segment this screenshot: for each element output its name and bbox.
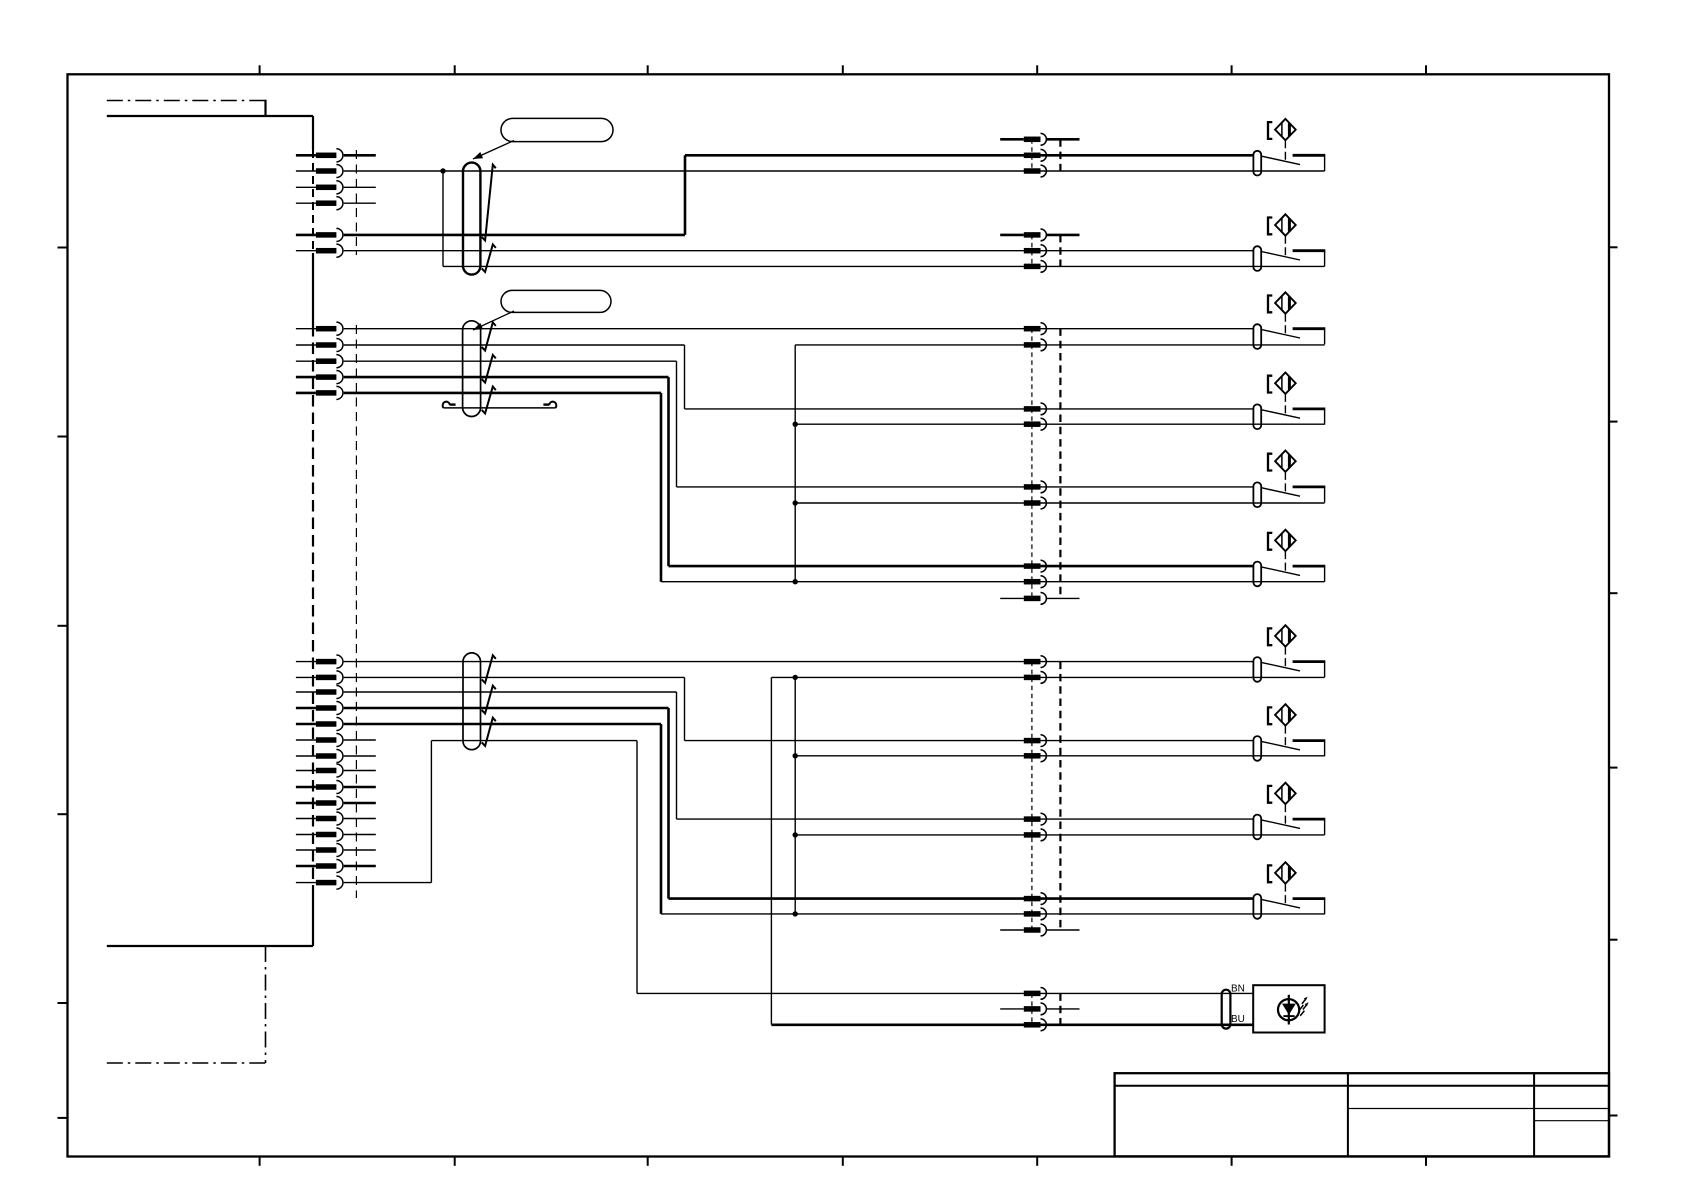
svg-text:BU: BU [1231,1014,1245,1025]
svg-text:BN: BN [1231,984,1245,995]
